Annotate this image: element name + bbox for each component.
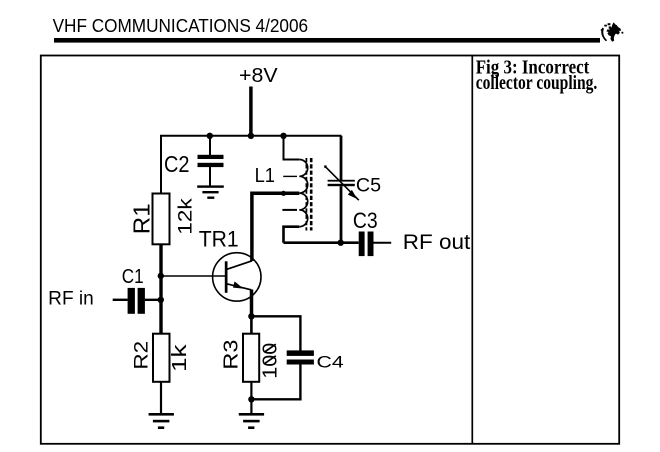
capacitor C4 branch wires	[251, 316, 300, 399]
wire bottom tank rail	[284, 241, 359, 244]
resistor R2	[153, 334, 170, 382]
svg-text:L1: L1	[255, 165, 275, 187]
ground (C2)	[197, 185, 224, 199]
inductor core dashes	[306, 158, 311, 231]
globe logo	[601, 22, 624, 41]
svg-text:+8V: +8V	[239, 65, 278, 87]
capacitor C2	[198, 136, 224, 186]
wire R2 to ground	[160, 382, 162, 413]
wire right rail lower	[340, 186, 343, 243]
svg-text:1k: 1k	[168, 343, 191, 372]
inductor L1	[282, 136, 307, 243]
svg-text:RF in: RF in	[48, 288, 94, 309]
node dot C4 return	[248, 396, 254, 402]
wire emitter down	[250, 290, 254, 317]
node dot emitter tee	[248, 313, 254, 319]
wire R1 to base node	[159, 244, 162, 334]
capacitor C5	[328, 180, 355, 186]
capacitor C1	[128, 288, 161, 314]
column divider	[471, 56, 473, 444]
ground (R2)	[149, 413, 174, 429]
ground (R3)	[239, 413, 264, 429]
node dot bottom rail	[338, 240, 344, 246]
transistor TR1	[213, 253, 261, 301]
svg-text:collector coupling.: collector coupling.	[476, 73, 598, 94]
resistor R3	[243, 334, 259, 382]
node dot C2/rail	[207, 133, 213, 139]
svg-text:C3: C3	[353, 208, 378, 233]
wire collector up and tap	[252, 193, 299, 261]
wire base	[161, 275, 226, 277]
wire right rail upper	[340, 136, 343, 180]
resistor R1	[153, 194, 170, 245]
capacitor C3	[359, 232, 392, 257]
svg-text:C1: C1	[122, 265, 144, 288]
wire top rail	[161, 136, 342, 194]
svg-text:R1: R1	[129, 203, 155, 234]
svg-text:C2: C2	[164, 151, 190, 177]
svg-text:TR1: TR1	[199, 227, 239, 252]
capacitor C5 arrow	[324, 165, 359, 200]
node dot base tee	[158, 273, 164, 279]
wire +8V drop	[249, 87, 253, 136]
svg-text:R2: R2	[130, 341, 152, 370]
node dot L1/rail	[280, 133, 286, 139]
svg-text:C4: C4	[317, 354, 344, 372]
svg-text:RF out: RF out	[403, 229, 471, 254]
svg-text:VHF COMMUNICATIONS 4/2006: VHF COMMUNICATIONS 4/2006	[53, 15, 309, 36]
svg-text:C5: C5	[356, 174, 381, 196]
wire emitter to R3	[250, 316, 253, 334]
wire RF in lead	[113, 299, 128, 301]
node dot +8V/rail	[248, 133, 254, 139]
outer frame	[41, 56, 619, 444]
svg-text:12k: 12k	[175, 198, 196, 235]
header rule	[54, 38, 600, 43]
svg-text:R3: R3	[220, 340, 242, 370]
wire R3 to ground	[250, 382, 252, 413]
capacitor C4	[287, 350, 314, 364]
node dot coil tap	[281, 191, 286, 196]
node dot C1	[158, 297, 164, 303]
